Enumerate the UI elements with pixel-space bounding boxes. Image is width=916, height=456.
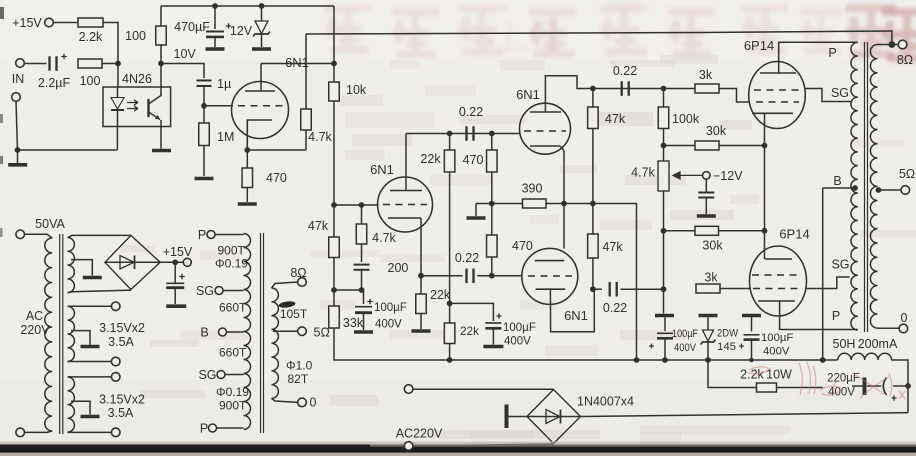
svg-text:400V: 400V [375,319,402,331]
resistor 470 upper [491,134,493,151]
svg-text:−12V: −12V [713,169,743,183]
T1 heater winding A [68,306,75,361]
svg-text:0: 0 [901,311,908,325]
resistor 22k plate load [449,134,451,151]
svg-text:100: 100 [125,29,146,43]
resistor 390 [523,199,547,208]
svg-text:Φ0.19: Φ0.19 [215,257,248,271]
svg-text:22k: 22k [460,324,479,338]
4N26 collector to 10V node [160,64,162,88]
wire IN to C2.2uF [24,63,46,65]
triode V2 6N1 [378,177,433,232]
bridge rectifier 1N4007x4 [527,390,581,444]
svg-text:47k: 47k [308,219,329,233]
svg-text:3.5A: 3.5A [108,406,134,420]
V1 plate row to 10k [261,63,334,65]
resistor 30k lower [695,226,719,235]
svg-text:470µF: 470µF [174,20,210,34]
bias column to ground bar [663,231,665,289]
svg-text:0.22: 0.22 [603,301,627,315]
pot wiper arrow to -12V [673,172,703,179]
heater B bottom tail [68,431,112,433]
svg-text:145: 145 [717,341,736,353]
svg-text:P: P [828,46,836,60]
P2 cathode [765,258,792,260]
heater B terminal upper [111,373,120,382]
pen mark 105T [278,300,296,308]
resistor 47k grid lower [592,204,594,235]
optocoupler 4N26 box [103,87,171,127]
svg-text:Φ1.0: Φ1.0 [286,359,313,373]
T2 sec 5ohm tap [273,330,298,332]
svg-text:5Ω: 5Ω [899,167,915,181]
svg-text:1M: 1M [217,130,234,144]
4N26 LED [117,88,119,98]
red pen scribbles [747,360,905,399]
V1 cathode [247,120,272,150]
ground IN- [17,150,19,163]
resistor 100k [663,89,665,108]
svg-text:100: 100 [80,74,101,88]
svg-text:SG: SG [198,368,216,382]
node 470 bottom [489,273,495,279]
resistor 22k to rail [449,303,451,323]
potentiometer 4.7k [663,146,665,162]
T2 terminal P top [207,231,215,239]
svg-text:10V: 10V [174,47,197,61]
node 470 mid [489,201,495,207]
V3 plate [530,111,561,113]
svg-text:200mA: 200mA [858,337,898,351]
svg-text:100µF: 100µF [503,322,536,334]
svg-text:6N1: 6N1 [564,308,588,323]
svg-text:B: B [833,174,841,188]
node V1 plate [331,61,337,67]
svg-text:8Ω: 8Ω [897,53,913,67]
svg-text:8Ω: 8Ω [290,266,306,280]
node row 290 [331,287,337,293]
svg-text:30k: 30k [702,239,723,253]
T2 terminal SG lower [217,371,225,379]
T1 rect winding top tail [68,235,131,237]
svg-text:6P14: 6P14 [779,227,809,242]
capacitor 100uF B+ 1 [664,317,666,331]
capacitor 0.22 lower-left [467,268,474,283]
svg-text:390: 390 [522,182,543,196]
node V2 grid [331,202,337,208]
node 3k lower [661,286,667,292]
capacitor 0.22 top right [622,81,629,96]
bridge output line [581,413,909,417]
svg-text:2.2k: 2.2k [79,30,103,44]
T1 rectifier winding [68,238,75,293]
capacitor 470uF [212,3,218,9]
node 220uF [905,383,911,389]
wire +15V to R 2.2k [53,22,78,24]
node IN- ground [15,147,21,153]
T2 terminal P bottom [209,424,217,432]
svg-text:100µF: 100µF [761,332,793,344]
rail corner to bridge line [891,360,908,413]
svg-text:AC: AC [26,309,43,323]
resistor 47k grid upper [592,89,594,108]
wire rail to plate node [333,6,335,64]
+15V output node [160,261,183,263]
svg-text:B: B [200,326,208,340]
wire grid node to tube V1 [204,105,233,107]
svg-text:P: P [200,422,208,436]
row 30k lower [664,230,765,232]
svg-text:3.5A: 3.5A [108,335,134,349]
svg-text:P: P [198,228,206,242]
svg-text:30k: 30k [706,124,727,138]
secondary 8ohm wire [878,44,899,46]
B column [822,188,824,360]
paper shading [0,380,916,446]
resistor 100 input [78,59,102,68]
svg-text:3.15Vx2: 3.15Vx2 [99,393,145,407]
bridge minus bar [505,405,509,429]
V3 grid dashes [524,130,566,132]
OPT secondary winding [870,45,877,329]
V1 grid dashes [238,105,283,107]
svg-text:0.22: 0.22 [455,251,479,265]
resistor 3k lower [696,284,720,293]
4N26 emitter ground [160,127,162,149]
node grid V1 [201,103,207,109]
V2 grid row [334,204,379,206]
4N26 light arrows [127,100,138,105]
svg-text:900T: 900T [218,244,246,258]
T2 terminal 8ohm [298,278,307,287]
svg-text:3k: 3k [704,271,718,285]
svg-text:470: 470 [266,171,287,185]
node 470 top [489,131,495,137]
wire 2.2k to LED node [103,23,118,64]
svg-text:+15V: +15V [12,16,42,30]
wire cathode row to 4.7k fb [247,149,306,151]
resistor 33k [333,290,335,306]
T1 heater winding B [68,377,75,432]
resistor 10k [333,64,335,83]
node B column rail [820,357,826,363]
node V1 cathode [244,147,250,153]
T1 rect winding center tap ground [71,260,92,276]
AC220V terminal lower [404,442,413,451]
capacitor 0.22 bottom right [610,282,617,297]
resistor 2.2k [78,18,103,27]
capacitor 1u [197,79,212,81]
P1 grids dashes [754,89,800,91]
terminal 5ohm [901,186,910,195]
svg-text:220V: 220V [20,323,50,337]
ground 1M [195,177,214,181]
node tail rail [634,357,640,363]
node cathode P1 [762,143,768,149]
node 22k rail [447,357,453,363]
node bias mid [661,228,667,234]
4N26 LED cathode lead [116,127,118,151]
heater A terminal lower [111,357,120,366]
reverse-page gray text mottling [340,95,383,106]
heater A bottom tail [68,361,112,363]
svg-text:P: P [832,309,840,323]
coupling row 133 [406,133,520,135]
svg-text:105T: 105T [280,307,308,321]
T1 primary winding [45,238,52,431]
row grid V4 [421,275,463,277]
zener 2DW145 [699,314,718,318]
svg-text:6N1: 6N1 [370,162,394,177]
triode V3 6N1 [520,103,571,154]
svg-text:6N1: 6N1 [516,87,540,102]
svg-text:1N4007x4: 1N4007x4 [577,395,634,409]
svg-text:IN: IN [12,72,25,86]
svg-text:660T: 660T [219,301,247,315]
wire IN- down [16,101,18,150]
capacitor 200 [354,264,370,266]
T1 primary terminal upper [16,230,25,239]
svg-text:SG: SG [831,86,849,100]
node B+ decouple [447,301,453,307]
terminal 0 [899,324,908,333]
node 22k plate load top [447,131,453,137]
pentode 6P14 lower [750,246,807,316]
ground stub 390 row [475,204,477,217]
V4 grid dashes [528,275,572,277]
resistor 30k upper [695,141,719,150]
row coupling upper 88 [593,88,695,90]
svg-text:22k: 22k [420,152,441,166]
wire 10V row to 1u cap [161,64,204,79]
node feedback 8ohm [889,41,896,48]
P1 plate [760,72,796,74]
wire IN- row to LED cathode [18,149,118,151]
resistor 3k upper [695,84,719,93]
V3 cathode [530,145,560,147]
triode V4 6N1 [522,248,578,304]
T2 sec 0 tail [272,398,298,402]
secondary 0 wire [878,327,900,329]
svg-text:900T: 900T [219,399,247,413]
T1 core [59,234,61,434]
svg-text:D.1: D.1 [498,14,560,60]
row 30k upper [664,145,765,147]
T2 terminal 5ohm [298,327,307,336]
svg-text:4.7k: 4.7k [631,166,655,180]
P1 grid wire [719,89,750,103]
svg-text:82T: 82T [288,372,309,386]
P2 grids dashes [752,274,802,276]
P2 screen wire [806,277,850,289]
row 390 [476,203,523,205]
svg-text:400V: 400V [674,342,696,354]
capacitor 220uF/400V [893,385,908,387]
+15V output terminal [183,258,191,266]
AC220V terminal upper [404,385,413,394]
pot to bias row 2 [663,191,665,231]
svg-text:470: 470 [463,153,484,167]
P2 grid wire [720,288,750,290]
P2 plate [758,300,795,302]
terminal -12V [703,172,711,180]
+15V terminal [45,18,54,27]
row B+ decouple [450,303,494,321]
V1 plate [245,90,275,92]
P1 screen wire [805,89,851,102]
resistor 2.2k 10W loop [708,360,757,388]
svg-text:660T: 660T [219,346,247,360]
node bias top [661,143,667,149]
P1 cathode [752,112,793,114]
capacitor -12V bypass [705,179,707,192]
secondary 5ohm tap [878,189,902,191]
node 47k upper [590,86,596,92]
svg-text:12V: 12V [230,24,253,38]
svg-text:+15V: +15V [163,245,193,259]
resistor 470 cathode V1 [246,150,248,168]
wire 33k to minus rail [334,328,450,360]
capacitor 0.22 first [467,126,474,141]
minus rail [450,359,637,361]
svg-text:3.15Vx2: 3.15Vx2 [99,321,145,335]
T2 secondary winding [272,288,279,398]
resistor 1M [203,106,205,123]
capacitor 100uF B+ 2 [742,314,761,318]
T2 sec 8ohm tail [272,282,298,288]
svg-text:400V: 400V [504,336,531,348]
IN terminal upper [16,59,25,68]
bottom scan band [0,442,916,446]
T1 primary terminal lower [25,431,53,433]
OPT B tap [852,185,858,191]
V4 cathode [536,288,566,290]
svg-text:SG: SG [831,258,849,272]
node LED anode [115,61,121,67]
node cathode tie [762,228,768,234]
T2 core [260,233,262,433]
capacitor 100uF/400V ladder [363,290,365,304]
svg-text:5Ω: 5Ω [314,326,330,340]
svg-text:0.22: 0.22 [613,64,637,78]
svg-text:33k: 33k [343,316,364,330]
svg-text:1µ: 1µ [217,77,231,91]
zener 12V [259,3,265,9]
svg-text:22k: 22k [430,288,451,302]
T2 terminal 0 [298,398,307,407]
feedback resistor 4.7k [305,130,307,150]
svg-text:3k: 3k [699,68,713,82]
svg-text:2.2µF: 2.2µF [38,76,71,90]
OPT primary winding [851,42,858,330]
T1 rect winding bottom tail [68,290,131,293]
resistor 47k dc ladder [333,205,335,237]
4N26 phototransistor [147,99,149,117]
svg-text:2DW: 2DW [717,328,738,340]
IN terminal lower [12,93,21,102]
svg-text:4.7k: 4.7k [372,231,396,245]
svg-text:10k: 10k [346,83,367,97]
V2 plate [390,190,422,192]
faint second row ghosts [345,112,435,128]
node 10V [158,61,164,67]
node V2 cathode out [418,273,424,279]
svg-text:100µF: 100µF [374,302,407,314]
V2 cathode [388,217,421,219]
AC220V lower terminal over band [404,442,413,451]
choke 50H [838,353,892,360]
feedback line from output [306,31,892,45]
node 100k top [661,86,667,92]
resistor 22k V2 cathode [420,276,422,294]
node SRPP mid [561,201,567,207]
svg-text:4.7k: 4.7k [308,130,332,144]
svg-text:47k: 47k [605,112,626,126]
heater B terminal lower [111,428,120,437]
SRPP mid column [563,151,565,249]
ground bar bias [655,314,674,318]
wire 100 to node [102,63,118,65]
left edge scan marks [0,7,4,19]
svg-text:470: 470 [512,239,533,253]
svg-text:4N26: 4N26 [122,72,152,86]
svg-text:6P14: 6P14 [744,38,774,53]
resistor 470 lower [491,204,493,236]
svg-text:AC220V: AC220V [396,427,443,441]
V2 grid dashes [383,204,427,206]
node cathode follower out [590,286,596,292]
heater A center tap ground [71,331,90,345]
pentode 6P14 upper [749,62,806,129]
row coupling lower 289 [593,288,602,290]
svg-text:200: 200 [388,261,409,275]
node 4.7k cathode branch [359,202,365,208]
svg-text:400V: 400V [763,346,790,358]
V4 plate [535,260,565,262]
terminal 8ohm [898,40,907,49]
heater B center tap ground [71,401,90,414]
capacitor 15V filter [174,262,176,283]
T2 terminal B [219,328,227,336]
capacitor 2.2uF polar [50,56,57,71]
svg-text:47k: 47k [602,240,623,254]
heater A terminal upper [111,302,120,311]
rail +15V top [161,5,334,7]
svg-text:0: 0 [310,396,317,410]
cathode tie vertical [764,146,766,231]
svg-text:100µF: 100µF [672,328,698,340]
svg-text:50VA: 50VA [35,217,65,231]
OPT core [864,42,866,332]
bridge rectifier 15V [105,235,160,289]
svg-text:2.2k: 2.2k [740,368,764,382]
resistor 4.7k V2 cathode [361,205,363,224]
node 47k mid [590,201,596,207]
wire 1u to grid node [203,86,205,106]
node zener rail [705,357,711,363]
capacitor 100uF/400V decouple [485,322,501,324]
resistor 100 vertical [160,6,162,26]
T2 primary winding [244,234,251,430]
triode V1 6N1 [232,82,289,139]
node cap1 rail [662,357,668,363]
svg-text:50H: 50H [833,337,856,351]
svg-text:100k: 100k [672,112,700,126]
svg-text:0.22: 0.22 [459,105,483,119]
T2 terminal SG upper [215,287,223,295]
svg-text:SG: SG [196,284,214,298]
wire node to 4N26 LED [117,64,119,89]
